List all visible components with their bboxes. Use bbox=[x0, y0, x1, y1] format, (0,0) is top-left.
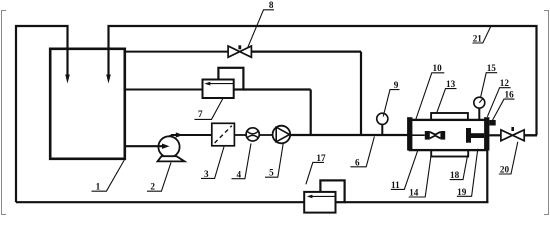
page edge mark left bbox=[2, 11, 7, 215]
label 14 bbox=[409, 153, 432, 198]
svg-text:1: 1 bbox=[96, 182, 101, 192]
cooler 7 top box bbox=[218, 68, 243, 90]
piston plate 18 bbox=[466, 128, 471, 143]
label 4 bbox=[232, 144, 252, 180]
svg-text:12: 12 bbox=[500, 78, 510, 88]
filter 3 bbox=[212, 123, 235, 146]
wire: top loop 21 bbox=[109, 26, 537, 135]
arrow into tank (right inlet) bbox=[106, 75, 111, 84]
wire: main line 6 to chamber bbox=[290, 134, 407, 136]
nozzle 14 feed wire bbox=[412, 134, 425, 136]
wire: filter to flowmeter bbox=[234, 134, 246, 136]
page edge mark right bbox=[544, 11, 549, 215]
svg-text:14: 14 bbox=[409, 188, 419, 198]
label 19 bbox=[457, 149, 478, 197]
pump 2 bbox=[125, 135, 185, 161]
svg-text:4: 4 bbox=[237, 169, 242, 179]
svg-text:2: 2 bbox=[150, 182, 155, 192]
label 20 bbox=[499, 142, 518, 175]
tank 1 bbox=[50, 49, 125, 159]
arrow on discharge bbox=[176, 132, 183, 137]
wire: valve 12 to riser 21 bbox=[524, 134, 537, 136]
gauge 15 bbox=[474, 97, 485, 120]
heat exchanger 17 main box bbox=[304, 192, 335, 213]
svg-text:21: 21 bbox=[473, 33, 483, 43]
label 12 bbox=[487, 78, 510, 117]
wire: left return loop (bottom, left side, top to tank inlet) bbox=[16, 26, 68, 202]
svg-text:10: 10 bbox=[433, 63, 443, 73]
wire: riser from bottom line to chamber right cap bbox=[486, 149, 488, 204]
wire: pump discharge to filter bbox=[171, 134, 212, 136]
chamber left cap 11 bbox=[407, 117, 412, 150]
wire: valve 8 to down-leg bbox=[251, 50, 361, 52]
pump 5 bbox=[273, 126, 291, 144]
svg-text:5: 5 bbox=[269, 168, 274, 178]
arrow into tank (left inlet) bbox=[65, 75, 70, 84]
label 8 bbox=[248, 0, 274, 47]
wire: down-leg joining main line bbox=[310, 90, 312, 136]
svg-text:15: 15 bbox=[487, 63, 497, 73]
wire: line from tank to component 7 bbox=[125, 89, 203, 91]
svg-text:13: 13 bbox=[446, 79, 456, 89]
wire: line from tank to valve 8 bbox=[125, 51, 229, 53]
cooler 7 main box bbox=[203, 80, 234, 99]
label 16 bbox=[493, 90, 515, 121]
label 2 bbox=[147, 163, 171, 192]
wire: bottom return line right of box 17 bbox=[344, 201, 488, 203]
svg-text:3: 3 bbox=[204, 169, 209, 179]
label 18 bbox=[450, 155, 468, 180]
chamber right cap 19 bbox=[484, 117, 489, 150]
label 1 bbox=[92, 160, 125, 192]
label 11 bbox=[391, 151, 418, 190]
svg-text:16: 16 bbox=[505, 90, 515, 100]
svg-text:11: 11 bbox=[391, 180, 400, 190]
heat exchanger 17 top box bbox=[320, 180, 344, 202]
fitting 16 bbox=[489, 120, 495, 126]
label 5 bbox=[265, 144, 283, 178]
svg-text:18: 18 bbox=[450, 170, 460, 180]
wire: component 7 to down-leg bbox=[243, 88, 311, 90]
piston rod bbox=[471, 133, 484, 138]
nozzle 14 bbox=[425, 131, 445, 140]
svg-text:17: 17 bbox=[316, 153, 326, 163]
svg-text:19: 19 bbox=[457, 187, 467, 197]
chamber top window 13 bbox=[431, 113, 468, 120]
label 15 bbox=[481, 63, 498, 97]
valve 12/20 bbox=[501, 127, 524, 141]
label 6 bbox=[350, 137, 374, 168]
wire: chamber to valve 12 bbox=[489, 134, 501, 136]
svg-text:6: 6 bbox=[355, 157, 360, 167]
wire: flowmeter to pump 5 bbox=[259, 134, 272, 136]
wire: down-leg joining main line bbox=[360, 52, 362, 135]
label 7 bbox=[195, 99, 223, 120]
label 13 bbox=[437, 79, 457, 113]
valve 8 bbox=[228, 45, 251, 57]
chamber bottom window bbox=[431, 150, 468, 156]
label 21 bbox=[472, 27, 490, 44]
label 9 bbox=[383, 80, 399, 117]
svg-text:8: 8 bbox=[269, 0, 274, 10]
svg-text:9: 9 bbox=[394, 80, 399, 90]
label 10 bbox=[416, 63, 445, 120]
svg-text:7: 7 bbox=[198, 109, 203, 119]
label 17 bbox=[306, 153, 326, 184]
chamber shell 10 bbox=[410, 120, 487, 150]
gauge 9 bbox=[377, 113, 388, 135]
flowmeter 4 bbox=[246, 128, 259, 141]
svg-text:20: 20 bbox=[500, 164, 510, 174]
label 3 bbox=[201, 147, 224, 179]
wire: bottom return line bbox=[16, 201, 305, 203]
